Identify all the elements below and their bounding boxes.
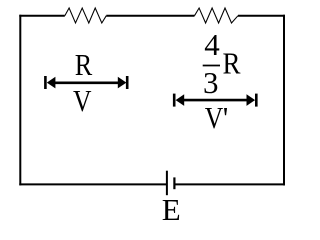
wire left side: [19, 15, 21, 186]
resistor R2 (right zigzag): [195, 8, 239, 23]
dimension arrow for V: right arrowhead: [118, 77, 127, 89]
wire top-right segment: [238, 15, 285, 17]
svg-text:R: R: [75, 47, 93, 82]
svg-text:V: V: [205, 100, 224, 135]
wire bottom-right segment: [174, 183, 285, 185]
svg-text:3: 3: [203, 65, 219, 100]
battery cell: long plate: [166, 171, 168, 196]
dimension arrow for V: left end bar: [44, 76, 47, 89]
dimension arrow for V': right arrowhead: [247, 94, 256, 106]
dimension arrow for V': shaft: [179, 99, 251, 102]
battery cell: short plate: [173, 177, 175, 189]
dimension arrow for V': left end bar: [173, 94, 176, 107]
dimension arrow for V': left arrowhead: [176, 94, 185, 106]
svg-text:E: E: [162, 192, 181, 227]
dimension arrow for V: shaft: [50, 82, 123, 85]
svg-text:': ': [223, 100, 229, 135]
wire right side: [283, 15, 285, 186]
wire top-middle segment: [106, 15, 194, 17]
dimension arrow for V': right end bar: [255, 94, 258, 107]
wire bottom-left segment: [19, 183, 167, 185]
resistor R1 (left zigzag): [65, 8, 107, 23]
dimension arrow for V: left arrowhead: [47, 77, 56, 89]
dimension arrow for V: right end bar: [126, 76, 129, 89]
svg-text:4: 4: [204, 27, 220, 62]
wire top-left segment: [19, 15, 65, 17]
svg-text:R: R: [223, 45, 241, 80]
fraction bar: [203, 65, 220, 67]
svg-text:V: V: [73, 83, 92, 118]
